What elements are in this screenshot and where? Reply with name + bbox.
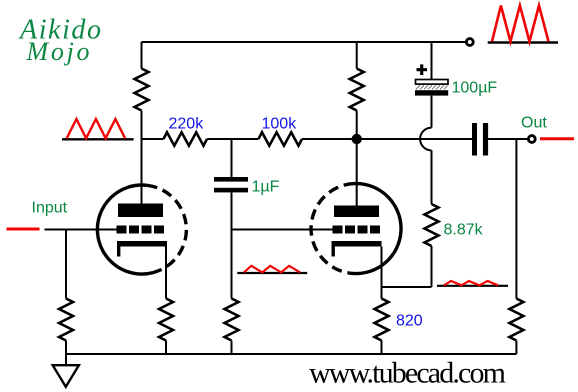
wire output load drop [515,139,517,299]
wire 1uF drop from row [231,139,233,177]
wire tube2 grid lead [232,229,333,231]
plus sign (electrolytic polarity) [417,64,428,75]
capacitor 1uF top plate [214,177,248,182]
svg-text:Mojo: Mojo [26,37,90,66]
wire branch 2 lower lead [356,111,358,140]
waveform large (output swing) red triangles [492,6,549,42]
svg-text:220k: 220k [169,116,205,133]
title Aikido Mojo [18,15,101,67]
waveform small left red triangles [244,266,300,273]
resistor tube1 cathode (unlabeled) [159,299,173,341]
wire node dot to output cap [357,138,473,140]
tube U1 envelope dashed arc [147,185,186,272]
capacitor 100uF bottom plate [415,90,448,95]
resistor plate load right (unlabeled) [350,69,364,111]
wire 100uF to hop [431,96,433,128]
svg-text:100k: 100k [262,116,298,133]
wire top B+ rail [142,41,466,43]
tube U2 cathode lead down [381,247,383,299]
wire grid leak to ground [65,341,67,366]
svg-text:100µF: 100µF [452,80,498,97]
svg-text:Input: Input [32,200,68,217]
terminal B+ (open circle) [466,39,473,46]
wire hop to 8.87k [431,150,433,204]
tube U1 envelope solid arc [97,185,153,274]
svg-text:8.87k: 8.87k [444,222,484,239]
tube U1 plate lead [141,139,143,204]
wire 100uF branch from rail [431,42,433,80]
resistor 820 [375,299,389,341]
tube U2 cathode bar [332,241,382,247]
waveform small right baseline [437,285,508,287]
ground symbol [53,365,79,387]
wire branch 2 upper lead [356,42,358,69]
wire hop over node row [420,128,431,151]
resistor 8.87k [425,204,439,246]
wire tube2 grid-leak drop [231,230,233,299]
tube U1 cathode bar [117,241,167,247]
wire red Out stub [540,137,574,140]
wire row from 100k to node dot [302,138,357,140]
resistor 100k [259,132,303,145]
svg-text:www.tubecad.com: www.tubecad.com [309,357,506,390]
waveform medium (input-node signal) baseline [62,138,134,140]
tube U2 grid dashes [333,226,381,234]
svg-text:820: 820 [396,313,423,330]
wire grid leak 2 to ground rail [231,341,233,355]
waveform large (output swing) baseline [488,41,558,44]
tube U1 grid dashes [117,226,165,234]
waveform small left baseline [237,272,307,274]
tube U2 envelope solid arc [349,184,401,274]
capacitor 1uF bottom plate [214,188,248,193]
wire output load to ground rail [515,341,517,355]
wire row between 220k and 100k [207,138,259,140]
terminal Out (open circle) [528,136,535,143]
wire row left segment [142,138,164,140]
wire input grid-leak drop [65,230,67,299]
tube U2 envelope dashed arc [311,184,354,273]
tube U1 plate [118,204,163,218]
wire input to tube 1 grid [45,229,117,231]
svg-text:Out: Out [521,115,547,132]
wire 8.87k to cathode junction [382,286,432,288]
wire cathode resistor to ground rail [165,341,167,355]
ground rail [66,353,516,355]
wire 1uF to tube2 grid row [231,192,233,229]
capacitor 100uF top plate [416,80,449,85]
resistor tube2 grid leak (unlabeled) [225,299,239,341]
wire branch 1 lower lead to node row [141,111,143,140]
svg-text:1µF: 1µF [252,179,280,196]
resistor output load (unlabeled) [509,299,523,341]
waveform small right red triangles [444,281,498,285]
wire 8.87k down [431,246,433,287]
wire 820 to ground rail [381,341,383,355]
waveform medium red triangles [67,119,125,138]
wire branch 1 upper lead [141,42,143,69]
resistor plate load left (unlabeled) [135,69,149,111]
capacitor 100uF hatched separator [416,85,448,89]
tube U1 cathode lead down [165,247,167,299]
capacitor output left plate [472,123,477,156]
wire output cap to out terminal [487,138,527,140]
resistor input grid leak (unlabeled) [59,299,73,341]
tube U2 plate lead [356,139,358,206]
resistor 220k [164,132,208,145]
tube U1 cathode left hook [117,247,120,257]
wire red Input stub [7,228,40,231]
tube U2 cathode left hook [332,247,335,257]
tube U2 plate [334,206,379,218]
junction node dot [352,134,362,144]
capacitor output right plate [483,123,488,156]
